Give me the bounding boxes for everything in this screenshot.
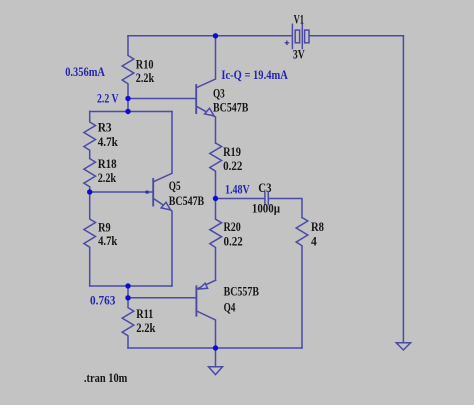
svg-text:Ic-Q = 19.4mA: Ic-Q = 19.4mA — [221, 67, 288, 82]
resistor R9 — [84, 192, 96, 286]
svg-text:BC547B: BC547B — [169, 193, 205, 208]
wire node 0.763 horizontal — [90, 285, 172, 287]
svg-text:1.48V: 1.48V — [225, 181, 250, 196]
svg-text:R20: R20 — [224, 219, 241, 234]
wire Q5 base — [90, 191, 153, 193]
wire top rail left — [128, 35, 292, 37]
svg-text:.tran 10m: .tran 10m — [84, 370, 128, 385]
junction 2.2V / Q3 base — [125, 96, 130, 101]
transistor Q4 — [196, 280, 215, 348]
junction R18/R9/Q5 base — [87, 189, 92, 194]
junction bottom rail / ground — [213, 345, 218, 350]
battery V1 — [285, 24, 309, 48]
svg-text:2.2k: 2.2k — [136, 320, 156, 335]
svg-text:BC547B: BC547B — [213, 99, 249, 114]
svg-text:R18: R18 — [98, 156, 117, 171]
svg-text:2.2k: 2.2k — [136, 70, 155, 85]
junction node 0.763 top — [125, 283, 130, 288]
svg-text:2.2 V: 2.2 V — [97, 91, 119, 106]
svg-text:0.22: 0.22 — [224, 234, 243, 249]
resistor R19 — [210, 143, 222, 199]
transistor Q5 — [146, 112, 172, 287]
svg-text:Q5: Q5 — [169, 178, 181, 193]
ground right — [396, 343, 410, 350]
junction 2.2V branch — [125, 109, 130, 114]
svg-text:4.7k: 4.7k — [98, 134, 119, 149]
svg-text:R11: R11 — [136, 306, 153, 321]
junction Q4 base tap — [125, 295, 130, 300]
svg-text:1000µ: 1000µ — [252, 201, 281, 216]
resistor R10 — [122, 36, 134, 112]
capacitor C3 — [265, 192, 268, 204]
svg-text:R19: R19 — [223, 144, 241, 159]
wire right rail down — [402, 36, 404, 343]
resistor R3 — [84, 112, 96, 159]
wire top rail right — [310, 35, 404, 37]
svg-text:2.2k: 2.2k — [98, 170, 117, 185]
wire node 2.2V horizontal — [90, 111, 172, 113]
svg-text:0.763: 0.763 — [90, 293, 116, 308]
svg-text:C3: C3 — [258, 180, 272, 195]
svg-text:V1: V1 — [294, 11, 304, 26]
resistor R8 — [296, 218, 308, 349]
svg-text:BC557B: BC557B — [224, 283, 260, 298]
resistor R11 — [122, 286, 134, 348]
resistor R18 — [84, 158, 96, 192]
wire Q4 base — [128, 297, 196, 299]
svg-text:3V: 3V — [293, 47, 305, 62]
svg-text:R8: R8 — [311, 219, 324, 234]
svg-text:4.7k: 4.7k — [98, 233, 118, 248]
junction node 1.48V — [213, 196, 218, 201]
ground middle — [209, 348, 223, 375]
svg-text:R3: R3 — [98, 120, 112, 135]
svg-text:0.356mA: 0.356mA — [65, 64, 105, 79]
transistor Q3 — [196, 36, 215, 143]
svg-text:Q3: Q3 — [213, 85, 225, 100]
wire cap to R8 — [268, 199, 302, 218]
wire node 1.48V to cap — [216, 198, 265, 200]
svg-text:0.22: 0.22 — [223, 158, 242, 173]
svg-text:Q4: Q4 — [224, 299, 236, 314]
wire Q3 base — [128, 98, 196, 100]
resistor R20 — [210, 199, 222, 281]
junction top rail / Q3 collector — [213, 33, 218, 38]
svg-text:4: 4 — [311, 233, 317, 248]
wire bottom rail — [128, 347, 302, 349]
